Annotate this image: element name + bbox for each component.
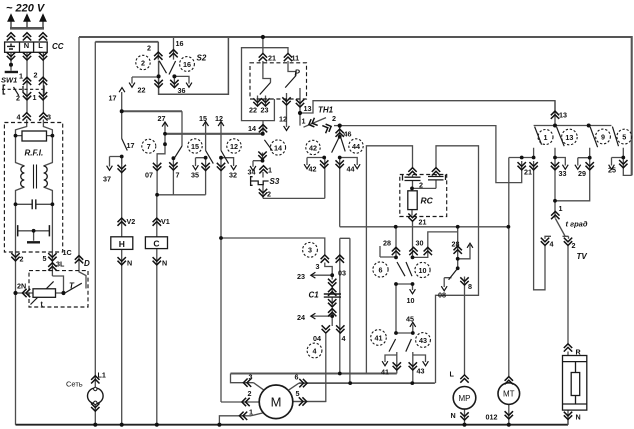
svg-text:29: 29 (578, 169, 586, 178)
svg-text:44: 44 (347, 165, 355, 174)
svg-text:4: 4 (313, 346, 317, 355)
svg-text:2: 2 (34, 71, 38, 80)
svg-text:16: 16 (176, 39, 184, 48)
svg-text:5: 5 (43, 254, 47, 263)
svg-text:8: 8 (468, 282, 472, 291)
svg-text:35: 35 (191, 171, 199, 180)
svg-text:2: 2 (267, 190, 271, 199)
svg-text:R.F.I.: R.F.I. (25, 149, 44, 158)
svg-text:21: 21 (268, 54, 276, 63)
svg-text:2: 2 (248, 389, 252, 398)
svg-text:15: 15 (199, 114, 207, 123)
svg-text:1: 1 (544, 133, 548, 142)
svg-text:R: R (576, 348, 582, 357)
svg-text:12: 12 (230, 142, 238, 151)
svg-text:2N: 2N (17, 282, 26, 291)
svg-text:22: 22 (249, 106, 257, 115)
svg-text:11: 11 (292, 54, 300, 63)
svg-text:43: 43 (419, 336, 427, 345)
svg-text:N: N (576, 413, 581, 422)
svg-text:P: P (295, 69, 301, 78)
svg-text:24: 24 (297, 313, 305, 322)
svg-text:N: N (162, 259, 167, 268)
svg-text:2: 2 (16, 94, 20, 103)
svg-text:M: M (271, 395, 282, 410)
svg-text:t град: t град (566, 220, 588, 229)
svg-text:13: 13 (565, 133, 573, 142)
svg-text:CC: CC (52, 42, 64, 51)
svg-text:9: 9 (601, 132, 605, 141)
svg-text:S3: S3 (270, 177, 280, 186)
svg-text:42: 42 (309, 165, 317, 174)
svg-text:N: N (127, 259, 132, 268)
svg-text:012: 012 (486, 413, 498, 422)
svg-text:N: N (451, 411, 456, 420)
svg-text:08: 08 (438, 291, 446, 300)
svg-text:5: 5 (296, 389, 300, 398)
svg-text:7: 7 (176, 171, 180, 180)
svg-text:25: 25 (608, 166, 616, 175)
svg-text:30: 30 (416, 239, 424, 248)
svg-text:1: 1 (33, 93, 37, 102)
svg-text:10: 10 (419, 266, 427, 275)
svg-text:21: 21 (419, 218, 427, 227)
svg-text:2: 2 (141, 58, 145, 67)
svg-text:13: 13 (559, 111, 567, 120)
svg-text:12: 12 (215, 114, 223, 123)
svg-text:2: 2 (419, 181, 423, 190)
svg-text:Сеть: Сеть (66, 380, 83, 389)
svg-text:43: 43 (417, 367, 425, 376)
svg-text:1C: 1C (63, 248, 72, 257)
svg-text:3: 3 (316, 262, 320, 271)
svg-text:27: 27 (158, 114, 166, 123)
svg-text:1: 1 (249, 408, 253, 417)
svg-text:33: 33 (559, 169, 567, 178)
svg-text:4: 4 (17, 113, 21, 122)
svg-text:4: 4 (342, 334, 346, 343)
svg-text:SW1: SW1 (1, 76, 17, 85)
svg-text:1: 1 (302, 117, 306, 126)
svg-text:5: 5 (622, 132, 626, 141)
svg-text:36: 36 (178, 86, 186, 95)
svg-text:V2: V2 (127, 217, 136, 226)
svg-text:42: 42 (309, 143, 317, 152)
svg-text:23: 23 (261, 106, 269, 115)
svg-text:3: 3 (249, 373, 253, 382)
svg-text:MP: MP (459, 394, 471, 403)
svg-text:RC: RC (421, 196, 434, 206)
svg-text:2: 2 (572, 241, 576, 250)
svg-text:4: 4 (550, 240, 554, 249)
svg-text:6: 6 (379, 265, 383, 274)
svg-text:45: 45 (406, 315, 414, 324)
svg-text:2: 2 (20, 255, 24, 264)
svg-text:07: 07 (145, 171, 153, 180)
svg-text:13: 13 (304, 104, 312, 113)
svg-text:D: D (84, 259, 90, 268)
svg-text:28: 28 (452, 240, 460, 249)
svg-text:L1: L1 (98, 371, 106, 380)
svg-text:T: T (69, 282, 75, 291)
svg-text:44: 44 (352, 142, 360, 151)
svg-text:12: 12 (279, 115, 287, 124)
svg-text:C: C (153, 239, 159, 249)
svg-text:34: 34 (248, 168, 256, 177)
svg-text:32: 32 (229, 171, 237, 180)
svg-text:2: 2 (147, 44, 151, 53)
svg-text:46: 46 (344, 130, 352, 139)
svg-text:H: H (119, 239, 125, 249)
svg-text:04: 04 (313, 334, 321, 343)
svg-text:TH1: TH1 (318, 106, 334, 115)
svg-text:17: 17 (109, 94, 117, 103)
svg-text:6: 6 (295, 373, 299, 382)
svg-text:C1: C1 (309, 291, 320, 300)
svg-text:3: 3 (308, 246, 312, 255)
svg-text:TV: TV (577, 252, 588, 261)
svg-text:2: 2 (332, 114, 336, 123)
svg-text:14: 14 (274, 143, 282, 152)
svg-text:L: L (38, 41, 43, 50)
svg-text:N: N (24, 41, 29, 50)
svg-text:1: 1 (268, 166, 272, 175)
svg-text:S2: S2 (197, 54, 207, 63)
svg-text:41: 41 (381, 368, 389, 377)
svg-text:28: 28 (383, 239, 391, 248)
svg-text:3L: 3L (56, 260, 65, 269)
svg-text:14: 14 (248, 124, 256, 133)
svg-text:23: 23 (297, 272, 305, 281)
svg-text:15: 15 (191, 142, 199, 151)
svg-text:16: 16 (183, 60, 191, 69)
svg-text:1: 1 (19, 72, 23, 81)
svg-text:21: 21 (524, 168, 532, 177)
svg-text:7: 7 (147, 142, 151, 151)
svg-text:MT: MT (503, 390, 515, 399)
svg-text:1: 1 (559, 204, 563, 213)
svg-text:41: 41 (375, 333, 383, 342)
svg-text:22: 22 (138, 86, 146, 95)
svg-text:V1: V1 (161, 217, 170, 226)
svg-text:~ 220 V: ~ 220 V (6, 3, 46, 15)
svg-text:03: 03 (338, 269, 346, 278)
svg-text:17: 17 (127, 141, 135, 150)
svg-text:3: 3 (47, 113, 51, 122)
svg-text:37: 37 (103, 175, 111, 184)
svg-text:10: 10 (407, 296, 415, 305)
svg-text:L: L (450, 370, 455, 379)
